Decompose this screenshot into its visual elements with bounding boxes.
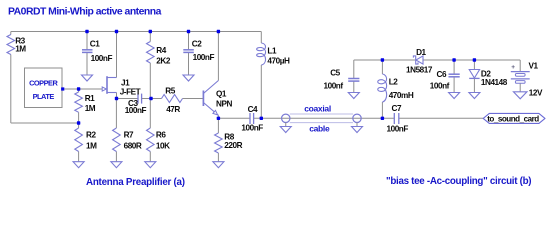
wire gate (64, 88, 106, 90)
wire bias rail right (423, 59, 520, 61)
svg-text:100nF: 100nF (241, 124, 263, 133)
node junction 9 (77, 121, 80, 124)
wire D2 top stem (473, 60, 475, 70)
diode D1 (413, 56, 418, 64)
svg-text:12V: 12V (529, 88, 543, 97)
resistor R3 (7, 35, 15, 55)
ground (R7) (111, 162, 122, 168)
svg-text:100nf: 100nf (324, 81, 344, 90)
node junction 2 (115, 30, 118, 33)
resistor R1 (75, 92, 83, 112)
svg-text:C1: C1 (90, 40, 100, 49)
wire R4 top stem (149, 32, 151, 42)
svg-text:1N4148: 1N4148 (481, 78, 508, 87)
svg-text:cable: cable (309, 124, 330, 134)
svg-text:PA0RDT Mini-Whip active antenn: PA0RDT Mini-Whip active antenna (8, 6, 162, 17)
wire R7 bottom stem (115, 152, 117, 162)
coax connector right (353, 114, 361, 122)
resistor R8 (215, 133, 223, 153)
capacitor C2 (183, 49, 194, 51)
transistor J1 (J-FET) (106, 76, 108, 94)
ground (C1) (82, 75, 93, 81)
svg-text:"bias tee -Ac-coupling" circui: "bias tee -Ac-coupling" circuit (b) (386, 176, 531, 187)
wire C2 top stem (188, 32, 190, 50)
wire J1 drain (116, 32, 118, 78)
wire bias rail left (354, 59, 416, 61)
capacitor C3 (137, 94, 139, 104)
ground (coax right) (352, 127, 363, 133)
capacitor C1 (82, 49, 93, 51)
svg-text:R2: R2 (86, 130, 96, 139)
wire R8 top stem (217, 118, 219, 133)
wire R4 bottom stem (149, 63, 151, 99)
svg-text:L1: L1 (267, 46, 277, 55)
node junction 10 (217, 117, 220, 120)
svg-text:C6: C6 (437, 70, 447, 79)
wire J1 source (116, 93, 118, 99)
ground (coax left) (280, 127, 291, 133)
wire C1 top stem (86, 32, 88, 50)
coax shield line top (290, 113, 353, 115)
ground (R6) (145, 162, 156, 168)
resistor R4 (147, 42, 155, 64)
node junction 14 (452, 58, 455, 61)
ground (D2) (469, 93, 480, 99)
node junction 1 (85, 30, 88, 33)
svg-text:R7: R7 (124, 130, 134, 139)
wire C7 to flag (399, 117, 484, 119)
wire C2 bottom stem (188, 52, 190, 75)
wire R5 to Q1 base (183, 98, 203, 100)
svg-text:47R: 47R (166, 105, 180, 114)
wire R2 bottom stem (78, 152, 80, 162)
resistor R7 (113, 128, 121, 152)
wire V1 top drop (519, 60, 521, 72)
node junction 3 (149, 30, 152, 33)
capacitor C5 (348, 78, 359, 80)
ground (R2) (73, 162, 84, 168)
coax shield line bottom (290, 122, 353, 124)
svg-text:100nF: 100nF (193, 53, 215, 62)
wire Q1 collector (217, 32, 219, 81)
svg-text:D2: D2 (481, 69, 491, 78)
net flag to_sound_card (483, 113, 545, 123)
wire C3 to R5 (142, 98, 162, 100)
wire Q1 emitter drop (217, 115, 219, 118)
svg-text:Q1: Q1 (216, 90, 227, 99)
svg-text:100nF: 100nF (91, 54, 113, 63)
node junction 8 (149, 97, 152, 100)
svg-text:220R: 220R (224, 141, 242, 150)
wire R8 bottom stem (217, 153, 219, 162)
wire R6 bottom stem (149, 152, 151, 162)
svg-text:NPN: NPN (216, 100, 232, 109)
svg-text:V1: V1 (529, 62, 539, 71)
svg-text:C4: C4 (248, 105, 258, 114)
svg-text:1N5817: 1N5817 (406, 66, 433, 75)
wire top rail (11, 31, 261, 33)
svg-text:100nf: 100nf (430, 81, 450, 90)
wire C1 bottom stem (86, 52, 88, 75)
svg-text:+: + (511, 64, 515, 71)
svg-text:680R: 680R (124, 142, 142, 151)
svg-text:R8: R8 (224, 132, 234, 141)
coax connector left (282, 114, 290, 122)
svg-text:L2: L2 (389, 77, 399, 86)
node junction 7 (115, 97, 118, 100)
node junction 4 (187, 30, 190, 33)
svg-text:COPPER: COPPER (29, 79, 58, 88)
wire L1 bottom stem (260, 65, 262, 118)
svg-text:C2: C2 (192, 40, 202, 49)
wire R7 top stem (115, 99, 117, 129)
capacitor C7 (393, 113, 395, 124)
wire R1 top stem (78, 89, 80, 92)
wire C5 top stem (353, 60, 355, 79)
svg-text:R6: R6 (156, 130, 166, 139)
svg-text:C5: C5 (330, 69, 340, 78)
svg-text:2K2: 2K2 (156, 57, 171, 66)
wire R1 bottom stem (78, 112, 80, 123)
svg-text:10K: 10K (156, 142, 170, 151)
ground (R8) (213, 162, 224, 168)
wire C6 top stem (453, 60, 455, 74)
diode D2 (469, 70, 479, 79)
wire bottom-left (11, 122, 79, 124)
wire R3 bottom / left drop (10, 55, 12, 124)
svg-text:coaxial: coaxial (304, 104, 331, 114)
node junction 13 (381, 58, 384, 61)
wire L2 top stem (381, 60, 383, 74)
copper plate terminal (61, 87, 64, 90)
svg-text:J-FET: J-FET (120, 87, 141, 96)
wire R3 top stem (10, 32, 12, 35)
copper plate box (25, 68, 63, 108)
ground (C2) (183, 75, 194, 81)
svg-text:R5: R5 (165, 87, 175, 96)
svg-text:Antenna Preaplifier (a): Antenna Preaplifier (a) (86, 177, 185, 188)
ground (V1) (513, 92, 527, 99)
wire D2 bottom stem (473, 78, 475, 92)
node junction 11 (260, 117, 263, 120)
wire R2 top stem (78, 123, 80, 128)
svg-text:470µH: 470µH (267, 57, 290, 66)
svg-text:R4: R4 (156, 46, 166, 55)
wire C4 to C7 (through coax) (254, 117, 395, 119)
transistor Q1 (NPN) (202, 91, 204, 107)
wire C6 bottom stem (453, 77, 455, 93)
wire R6 top stem (149, 99, 151, 129)
svg-text:470mH: 470mH (389, 91, 414, 100)
capacitor C6 (449, 73, 460, 75)
inductor L2 (378, 74, 387, 102)
resistor R6 (147, 128, 155, 152)
wire L1 top stem (260, 32, 262, 44)
wire V1 bottom stem (519, 83, 521, 92)
svg-text:to_sound_card: to_sound_card (487, 115, 539, 124)
wire emitter row to C4 (218, 117, 250, 119)
inductor L1 (257, 43, 266, 65)
svg-text:1M: 1M (85, 104, 96, 113)
wire C5 bottom stem (353, 81, 355, 93)
node junction 15 (473, 58, 476, 61)
svg-text:100nF: 100nF (125, 106, 147, 115)
svg-text:C7: C7 (392, 104, 402, 113)
svg-text:PLATE: PLATE (33, 92, 55, 101)
wire source row to C3 (117, 98, 139, 100)
wire L2 bottom stem (381, 102, 383, 118)
battery V1 (511, 71, 530, 73)
node junction 12 (381, 117, 384, 120)
node junction 5 (217, 30, 220, 33)
capacitor C4 (249, 113, 251, 124)
svg-text:D1: D1 (416, 48, 426, 57)
resistor R2 (75, 128, 83, 152)
svg-text:J1: J1 (121, 78, 130, 87)
svg-text:1M: 1M (86, 142, 97, 151)
svg-text:1M: 1M (15, 45, 26, 54)
svg-text:100nF: 100nF (387, 125, 409, 134)
ground (C5) (348, 93, 359, 99)
svg-text:R1: R1 (85, 94, 95, 103)
resistor R5 (162, 95, 183, 103)
ground (C6) (449, 93, 460, 99)
node junction 6 (77, 87, 80, 90)
